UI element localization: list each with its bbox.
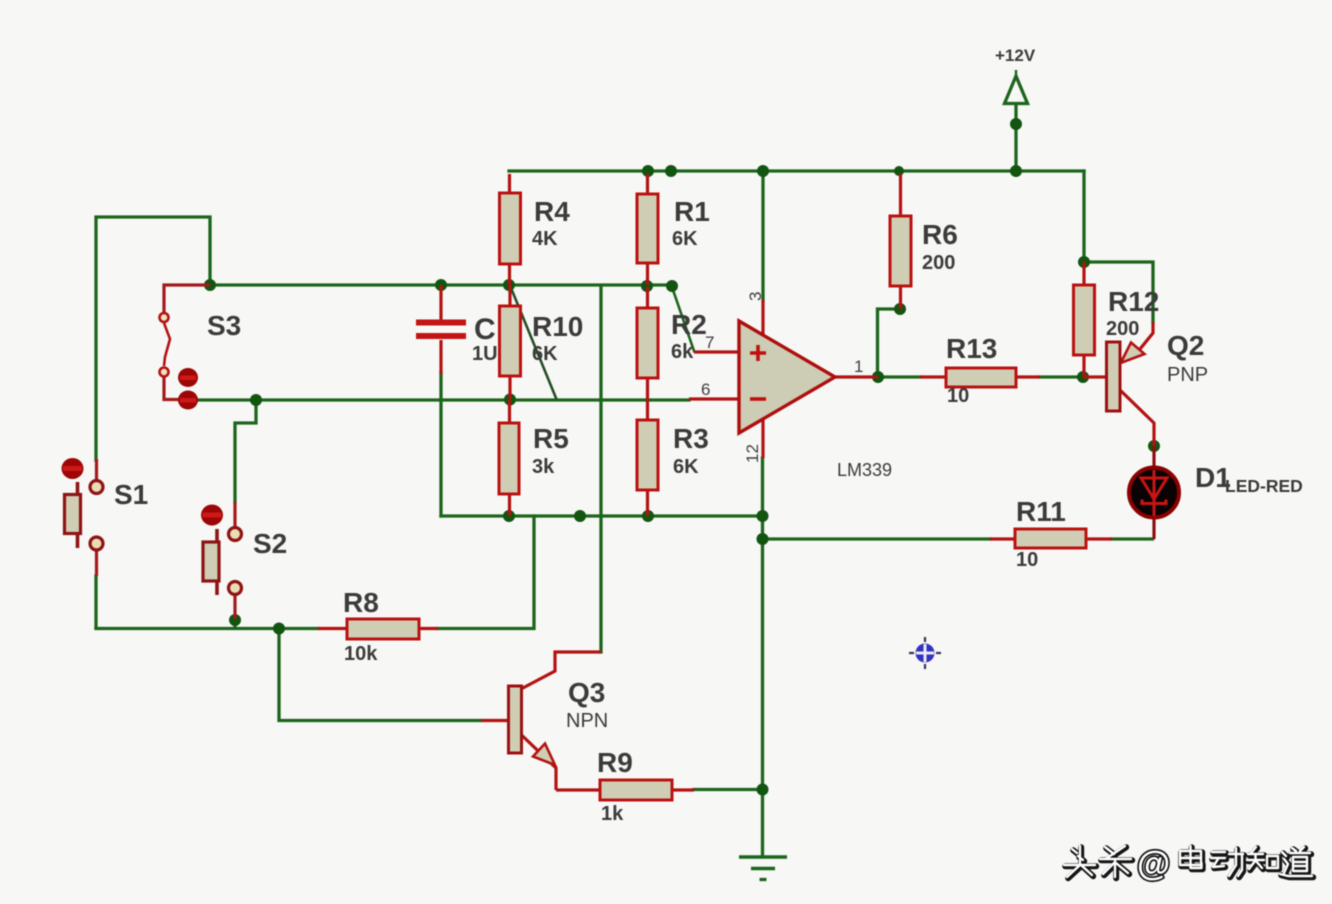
wire S3 output row y=400 [198, 398, 689, 401]
wire node row y=285 [210, 283, 672, 286]
junction rail second dot [665, 165, 677, 177]
svg-text:NPN: NPN [566, 710, 608, 732]
wire S1 top up and over to S3 node [96, 217, 210, 460]
svg-text:6K: 6K [673, 456, 699, 478]
svg-text:200: 200 [922, 252, 955, 274]
transistor Q2 PNP [1083, 322, 1208, 446]
wire op-amp pin12 column down to ground [761, 458, 764, 857]
svg-text:6K: 6K [532, 343, 558, 365]
wire mid row y=516 [441, 514, 763, 517]
svg-text:6K: 6K [672, 228, 698, 250]
resistor R3 6K [637, 420, 709, 516]
svg-text:6: 6 [701, 380, 710, 399]
junction power on rail [1010, 165, 1022, 177]
wire R11 to LED column [1112, 537, 1153, 540]
resistor R5 3k [499, 399, 569, 516]
origin marker (blue crosshair) [909, 637, 941, 669]
resistor R6 200 [890, 174, 958, 309]
svg-text:10k: 10k [344, 643, 378, 665]
svg-text:3: 3 [746, 292, 765, 301]
svg-text:R13: R13 [946, 333, 997, 364]
svg-text:1U: 1U [472, 343, 498, 365]
junction Q2 base node [1077, 371, 1089, 383]
junction R10 bottom / R5 top node [504, 394, 516, 406]
svg-text:R5: R5 [533, 423, 569, 454]
junction power node upper [1010, 118, 1022, 130]
junction mid row extra node [574, 510, 586, 522]
svg-text:200: 200 [1106, 318, 1139, 340]
svg-text:1k: 1k [601, 803, 624, 825]
transistor Q3 NPN [481, 652, 608, 790]
junction op-amp output node [872, 371, 884, 383]
pin 7 label [705, 333, 714, 352]
wire R8 right up to mid row [438, 516, 534, 629]
junction mid row meets ground column [757, 510, 769, 522]
pin 6 label [701, 380, 710, 399]
svg-text:10: 10 [1016, 549, 1038, 571]
capacitor C1 1U [416, 285, 498, 374]
junction S2 bottom node [229, 614, 241, 626]
wire R6 bottom link to output node [878, 309, 901, 377]
wire power stub at x=1016 [1014, 104, 1017, 171]
svg-text:1: 1 [854, 357, 863, 376]
junction R9 row meets ground column [757, 784, 769, 796]
svg-text:+12V: +12V [995, 46, 1036, 65]
resistor R1 6K [637, 174, 710, 285]
svg-text:10: 10 [947, 385, 969, 407]
wiper line of R10 (dark diagonal) [511, 288, 556, 398]
svg-text:C: C [474, 313, 496, 346]
svg-text:S2: S2 [253, 528, 287, 559]
junction Q3 base branch node [273, 623, 285, 635]
resistor R12 200 [1074, 262, 1160, 377]
svg-text:R11: R11 [1016, 496, 1066, 527]
svg-text:12: 12 [743, 444, 762, 463]
wire output node to R13 [878, 375, 920, 378]
resistor R2 6k [637, 287, 707, 420]
resistor R8 10k [318, 587, 438, 665]
svg-text:3k: 3k [532, 456, 555, 478]
svg-text:R4: R4 [534, 196, 570, 227]
junction R1 bottom / R2 top node [641, 280, 653, 292]
junction Q2 collector / LED node [1148, 440, 1160, 452]
wire S2 bottom stub [233, 620, 236, 628]
resistor R4 4K [500, 174, 571, 285]
svg-text:6k: 6k [671, 341, 694, 363]
wire bottom row y=628 left of R8 [96, 627, 318, 630]
svg-text:PNP: PNP [1167, 364, 1208, 386]
wire rail corner down to R12 node [1082, 171, 1085, 262]
resistor R10 6K [500, 285, 584, 399]
junction R12 top node [1078, 256, 1090, 268]
resistor R13 10 [920, 333, 1040, 407]
pin 3 label [746, 292, 765, 301]
wire S1 bottom drop [94, 576, 97, 628]
junction R4 bottom / R10 top node [503, 279, 515, 291]
op-amp U1 LM339 [689, 300, 892, 480]
svg-text:@: @ [1137, 845, 1170, 883]
wire R12 node to Q2 emitter [1084, 262, 1153, 322]
junction pin3 column on rail [757, 165, 769, 177]
svg-text:R6: R6 [922, 219, 958, 250]
svg-text:S1: S1 [114, 479, 148, 510]
power +12V symbol [995, 46, 1036, 104]
junction node to pin7 diagonal [666, 280, 678, 292]
junction R3 bottom on mid row [642, 510, 654, 522]
LED D1 LED-RED [1129, 446, 1303, 539]
wire top +12V rail y=171 [509, 169, 1084, 172]
svg-text:R10: R10 [532, 311, 583, 342]
wire jog down to S2 top [235, 400, 256, 502]
wire op-amp pin3 column [761, 171, 764, 300]
junction R6 top on rail [894, 166, 904, 176]
svg-text:LED-RED: LED-RED [1225, 476, 1303, 496]
svg-text:R1: R1 [674, 196, 710, 227]
ground symbol [739, 857, 787, 880]
svg-text:R3: R3 [673, 423, 709, 454]
wire R9 to ground column [694, 788, 763, 791]
svg-text:R8: R8 [343, 587, 379, 618]
wire branch down to Q3 collector [599, 286, 602, 652]
wire R13 to Q2 base node [1040, 375, 1083, 378]
svg-text:S3: S3 [207, 310, 241, 341]
pin 12 label [743, 444, 762, 463]
wire R11 row y=539 [763, 537, 991, 540]
svg-text:7: 7 [705, 333, 714, 352]
junction S3 top node [204, 279, 216, 291]
junction R11 row meets ground column [757, 533, 769, 545]
svg-text:R12: R12 [1108, 286, 1159, 317]
svg-text:LM339: LM339 [837, 460, 892, 480]
svg-text:Q2: Q2 [1167, 330, 1204, 361]
watermark 头条 @电动知道 (outlined) [1064, 845, 1313, 883]
junction R1 top [642, 165, 654, 177]
svg-text:R2: R2 [671, 309, 707, 340]
junction S3 output node [250, 394, 262, 406]
svg-text:R9: R9 [597, 747, 633, 778]
switch S1 pushbutton [62, 458, 149, 576]
svg-text:4K: 4K [532, 228, 558, 250]
wire diagonal node to pin7 [672, 287, 694, 351]
svg-text:Q3: Q3 [568, 677, 605, 708]
resistor R11 10 [990, 496, 1112, 571]
junction R5 bottom on mid row [503, 510, 515, 522]
junction C1 top node [435, 279, 447, 291]
wire C1 lower lead drop [439, 373, 442, 516]
junction R6 bottom node [894, 303, 906, 315]
pin 1 label [854, 357, 863, 376]
resistor R9 1k [556, 747, 694, 825]
switch S2 pushbutton [201, 502, 287, 619]
wire down and across to Q3 base [279, 629, 481, 721]
switch S3 [160, 285, 242, 410]
